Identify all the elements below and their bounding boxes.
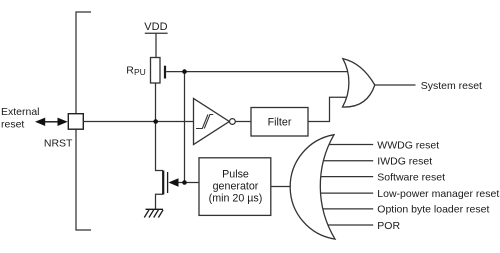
svg-text:WWDG reset: WWDG reset: [377, 139, 439, 151]
svg-text:reset: reset: [1, 119, 24, 131]
svg-text:NRST: NRST: [44, 137, 73, 149]
svg-text:generator: generator: [213, 181, 259, 193]
svg-text:VDD: VDD: [144, 21, 167, 33]
svg-text:Low-power manager reset: Low-power manager reset: [377, 188, 499, 200]
svg-text:POR: POR: [377, 220, 400, 232]
svg-text:External: External: [1, 106, 40, 118]
svg-text:System reset: System reset: [421, 80, 482, 92]
svg-text:Software reset: Software reset: [377, 171, 445, 183]
svg-text:Filter: Filter: [268, 117, 292, 129]
svg-text:Option byte loader reset: Option byte loader reset: [377, 204, 489, 216]
svg-text:IWDG reset: IWDG reset: [377, 156, 432, 168]
svg-text:Pulse: Pulse: [222, 169, 249, 181]
svg-text:PU: PU: [134, 67, 146, 77]
svg-text:(min 20 µs): (min 20 µs): [209, 193, 263, 205]
